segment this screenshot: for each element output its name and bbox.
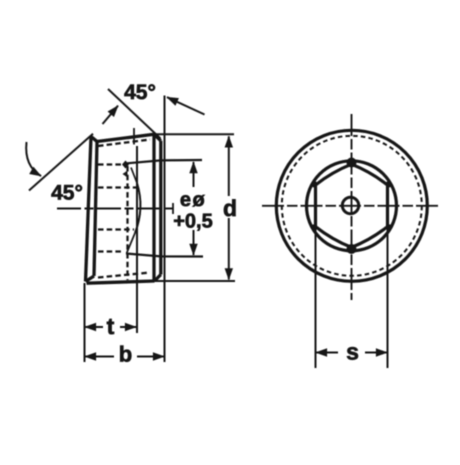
wire hex flat dashed top	[98, 186, 137, 188]
dimension d lower arrow	[228, 218, 230, 280]
wire hex flat dashed bottom	[98, 228, 134, 230]
wire socket bottom dashed vertical	[126, 166, 128, 280]
wire left end face	[86, 137, 92, 282]
leader curved arrow to left chamfer line	[26, 142, 41, 176]
extension line s right	[387, 228, 389, 368]
dimension b line and arrows	[85, 356, 114, 358]
leader arrow to face edge	[167, 97, 205, 114]
centerline horizontal right view	[262, 205, 441, 207]
dimension t line and arrows	[85, 326, 103, 328]
wire thread start line left	[94, 142, 97, 277]
svg-text:45°: 45°	[51, 182, 83, 205]
svg-text:t: t	[107, 313, 115, 339]
centerline vertical right view	[351, 114, 353, 300]
node socket corner diamond	[122, 161, 129, 169]
node socket corner tick	[123, 171, 128, 178]
construction line 45 left chamfer	[29, 134, 93, 191]
svg-text:45°: 45°	[124, 81, 156, 104]
wire thread minor dashed top	[98, 140, 150, 147]
construction line 45 top right chamfer	[108, 89, 161, 139]
wire extension line left	[84, 283, 86, 362]
dimension eo lower arrow	[193, 230, 195, 255]
svg-text:b: b	[119, 342, 132, 367]
dimension eo upper arrow	[193, 162, 195, 187]
leader arrow to top chamfer line	[103, 106, 119, 124]
wire extension line t right	[136, 146, 138, 333]
wire top-right chamfer	[154, 134, 161, 141]
wire socket bottom line	[126, 254, 203, 257]
wire extension line b right	[164, 96, 166, 363]
wire right face	[159, 141, 162, 275]
extension line s left	[315, 228, 317, 368]
outer circle body	[276, 130, 427, 281]
hex socket	[316, 164, 388, 247]
dimension s line and arrows	[316, 352, 338, 354]
wire thread minor dashed bottom	[98, 273, 150, 278]
wire socket cone upper diagonal	[131, 168, 137, 184]
wire drill dia dashed bottom	[98, 250, 124, 252]
center pilot hole	[342, 197, 358, 213]
wire extension line d top	[150, 133, 234, 135]
svg-text:+0,5: +0,5	[173, 211, 212, 233]
wire top-left chamfer	[91, 137, 97, 142]
wire socket cone arc	[135, 183, 140, 233]
wire socket cone lower diagonal	[127, 233, 136, 254]
wire socket top line	[127, 160, 202, 163]
svg-text:eø: eø	[180, 189, 206, 211]
wire chamfer circle right	[152, 134, 155, 281]
hex corner blobs	[311, 158, 392, 255]
svg-text:s: s	[346, 339, 359, 365]
centerline axis left view	[57, 208, 177, 210]
wire bottom-left chamfer	[86, 276, 95, 282]
dimension d upper arrow	[228, 136, 230, 196]
wire extension line d bottom	[154, 280, 235, 282]
tick axis right	[172, 203, 174, 214]
socket counterbore circle	[307, 161, 397, 251]
wire top edge taper	[97, 134, 154, 141]
svg-text:d: d	[223, 195, 237, 221]
thread dashed circle	[282, 136, 422, 276]
wire drill dia dashed top	[98, 163, 122, 165]
wire bottom-right chamfer	[155, 275, 161, 282]
tick gauge plane	[133, 128, 135, 145]
wire bottom edge taper	[87, 281, 155, 283]
